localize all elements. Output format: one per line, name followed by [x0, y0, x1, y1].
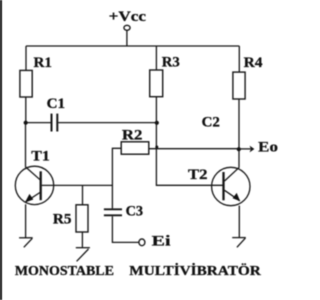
svg-text:T1: T1: [31, 148, 50, 164]
wire Eo arrow: [239, 148, 251, 150]
resistor R2: [121, 142, 149, 154]
ground T2: [232, 237, 246, 239]
wire Vcc drop: [126, 30, 128, 46]
wire R1 bottom to node A: [25, 97, 27, 123]
svg-text:R2: R2: [122, 128, 142, 144]
wire R4 bottom to T2 collector: [238, 99, 240, 167]
wire R2 right lead to Eo node: [149, 148, 239, 150]
svg-text:Eo: Eo: [258, 140, 278, 156]
svg-text:C3: C3: [126, 204, 144, 220]
transistor T2: [212, 167, 250, 205]
wire R5 bottom: [81, 232, 83, 248]
svg-text:R3: R3: [162, 55, 180, 71]
wire top rail: [26, 45, 239, 47]
wire R1 top: [25, 46, 27, 70]
svg-text:MONOSTABLE: MONOSTABLE: [15, 263, 114, 278]
+Vcc terminal circle: [124, 25, 130, 30]
svg-text:MULTİVİBRATÖR: MULTİVİBRATÖR: [129, 263, 261, 278]
wire T1 base: [42, 184, 113, 186]
wire node A to C1: [26, 122, 51, 124]
border left bar: [0, 0, 2, 300]
ground R5: [76, 247, 90, 249]
transistor T1: [15, 166, 53, 204]
ground T1: [19, 237, 33, 239]
capacitor C3: [104, 208, 122, 210]
capacitor C1: [51, 114, 53, 132]
wire node A to T1 collector: [25, 123, 27, 167]
wire node B down and over to T2 base: [156, 123, 222, 186]
svg-text:R4: R4: [244, 55, 263, 71]
resistor R4: [233, 72, 245, 99]
svg-text:T2: T2: [188, 167, 208, 183]
svg-text:Ei: Ei: [152, 233, 171, 249]
svg-text:+Vcc: +Vcc: [109, 8, 147, 25]
svg-text:C1: C1: [47, 96, 66, 112]
wire T2 emitter down: [238, 206, 240, 238]
svg-text:R1: R1: [34, 55, 53, 71]
wire R3 bottom to node B: [155, 97, 157, 123]
wire R3 top: [155, 46, 157, 70]
wire R4 top: [238, 46, 240, 72]
wire R5 drop: [82, 185, 84, 204]
node B junction dot: [155, 121, 159, 125]
resistor R3: [150, 70, 163, 97]
Ei terminal circle: [139, 239, 145, 246]
resistor R1: [20, 70, 32, 97]
node Eo junction dot: [237, 147, 241, 151]
wire C1 to node B: [58, 122, 156, 124]
wire T1 emitter down: [25, 204, 27, 238]
node A junction dot: [24, 121, 28, 125]
node small junction dot on R2 wire crossing: [155, 146, 158, 149]
wire C3 bottom to Ei: [112, 216, 138, 242]
svg-text:R5: R5: [53, 211, 72, 227]
resistor R5: [76, 205, 88, 232]
wire R2 left lead and drop to C3: [112, 148, 121, 208]
svg-text:C2: C2: [202, 114, 220, 130]
